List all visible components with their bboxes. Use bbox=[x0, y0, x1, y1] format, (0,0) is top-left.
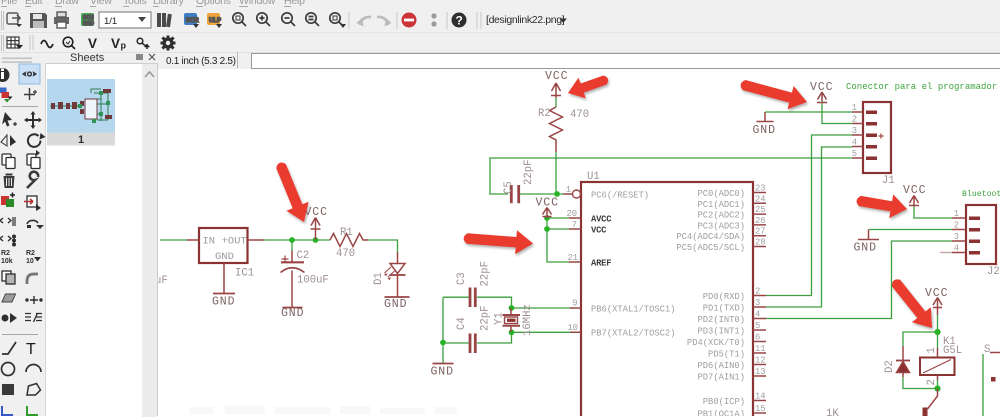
tool: change (wrench) bbox=[27, 172, 38, 188]
svg-text:10: 10 bbox=[26, 258, 34, 265]
tool: lock bbox=[27, 220, 44, 229]
wire VCC to K1 bbox=[937, 315, 939, 348]
dots icon bbox=[431, 13, 436, 18]
svg-text:PD4(XCK/T0): PD4(XCK/T0) bbox=[687, 338, 745, 348]
node K1 top junction bbox=[934, 329, 940, 335]
sheet thumbnail bbox=[47, 79, 116, 146]
tool: show (selected) bbox=[19, 64, 40, 84]
svg-text:V: V bbox=[88, 36, 97, 51]
svg-text:1/1: 1/1 bbox=[104, 16, 117, 27]
svg-text:2: 2 bbox=[954, 221, 959, 231]
svg-text:470: 470 bbox=[570, 109, 589, 121]
svg-text:3: 3 bbox=[755, 298, 760, 308]
svg-text:BRD: BRD bbox=[83, 21, 94, 27]
svg-text:C5: C5 bbox=[503, 181, 515, 194]
svg-text:GND: GND bbox=[384, 298, 407, 311]
svg-text:2: 2 bbox=[852, 115, 857, 125]
wire J1.4 to TXD bbox=[766, 147, 852, 307]
capacitor C2 bbox=[281, 251, 305, 308]
svg-text:PB7(XTAL2/TOSC2): PB7(XTAL2/TOSC2) bbox=[591, 329, 675, 339]
svg-text:ULP: ULP bbox=[209, 18, 221, 24]
svg-text:U1: U1 bbox=[587, 171, 600, 183]
svg-text:GND: GND bbox=[281, 307, 304, 320]
svg-text:20: 20 bbox=[566, 209, 577, 219]
node icon bbox=[137, 38, 149, 49]
IC1 pins bbox=[187, 240, 265, 293]
capacitor C5 bbox=[511, 185, 518, 203]
print icon bbox=[54, 12, 69, 28]
svg-text:PD0(RXD): PD0(RXD) bbox=[703, 292, 745, 302]
tool: pinswap bbox=[24, 196, 41, 211]
node XTAL2 junction bbox=[509, 329, 515, 335]
library books icon bbox=[157, 13, 172, 27]
U1 left pins bbox=[569, 218, 581, 332]
tool: wire bbox=[2, 342, 16, 354]
tool: ripup (parallelogram) bbox=[2, 294, 16, 302]
svg-text:PC0(ADC0): PC0(ADC0) bbox=[697, 189, 745, 199]
svg-text:C2: C2 bbox=[297, 250, 310, 262]
svg-text:PD5(T1): PD5(T1) bbox=[708, 350, 745, 360]
wire R2 bottom to junction bbox=[555, 152, 557, 194]
crystal Y1 bbox=[503, 308, 521, 332]
svg-text:PB0(ICP): PB0(ICP) bbox=[703, 397, 745, 407]
row2: grid icon bbox=[7, 37, 23, 49]
svg-text:IC1: IC1 bbox=[235, 268, 254, 280]
svg-text:16MHz: 16MHz bbox=[522, 304, 534, 336]
tool: paste bbox=[27, 150, 40, 169]
diode D1 LED bbox=[384, 252, 406, 297]
node K1 bottom junction bbox=[934, 385, 940, 391]
node RESET junction bbox=[554, 191, 560, 197]
tool: mirror bbox=[1, 135, 16, 146]
tool: move bbox=[24, 111, 42, 129]
svg-text:Bluetooth: Bluetooth bbox=[962, 189, 1000, 199]
wire input to IC1 bbox=[160, 239, 188, 241]
capacitor C3 bbox=[470, 288, 475, 308]
svg-text:D2: D2 bbox=[884, 360, 896, 373]
tool: select arrow bbox=[2, 112, 17, 127]
left command toolbar bbox=[0, 69, 46, 416]
gear icon bbox=[161, 36, 176, 51]
zoom icons x5 bbox=[233, 13, 346, 28]
wire D2 loop bottom bbox=[903, 377, 938, 389]
svg-text:26: 26 bbox=[755, 216, 766, 226]
transistor Q1 lead bbox=[928, 389, 938, 410]
svg-text:PC6(/RESET): PC6(/RESET) bbox=[591, 191, 649, 201]
svg-text:1: 1 bbox=[954, 209, 959, 219]
svg-text:470: 470 bbox=[336, 248, 355, 260]
svg-text:12: 12 bbox=[755, 356, 766, 366]
wire C2 top bbox=[291, 240, 293, 251]
diode D2 bbox=[896, 346, 910, 377]
help icon bbox=[452, 13, 467, 28]
svg-text:GND: GND bbox=[431, 366, 454, 379]
stop icon bbox=[402, 13, 417, 28]
tool: bus bbox=[2, 406, 13, 415]
svg-text:10k: 10k bbox=[1, 258, 13, 265]
svg-text:2: 2 bbox=[926, 379, 938, 385]
wire D2 loop top bbox=[903, 332, 938, 346]
tool: copy bbox=[2, 154, 15, 169]
tool: info bbox=[0, 68, 10, 82]
svg-text:1: 1 bbox=[78, 134, 84, 146]
wire J1.1 to GND bbox=[765, 111, 852, 113]
svg-text:10: 10 bbox=[567, 323, 578, 333]
svg-text:22pF: 22pF bbox=[480, 306, 492, 331]
wire net J1.5 / C5 / RESET bbox=[490, 158, 852, 194]
svg-text:13: 13 bbox=[755, 367, 766, 377]
svg-text:GND: GND bbox=[753, 124, 776, 137]
canvas coordinate header bbox=[166, 56, 236, 67]
wire C3/C4 left rail to GND bbox=[443, 297, 469, 363]
tool: add bbox=[1, 193, 15, 208]
svg-text:VCC: VCC bbox=[536, 197, 559, 210]
wire AVCC spur bbox=[547, 217, 569, 219]
top chrome background bbox=[0, 0, 1000, 69]
svg-text:?: ? bbox=[456, 14, 463, 28]
wire XTAL1 net bbox=[477, 297, 570, 308]
svg-text:25: 25 bbox=[755, 205, 766, 215]
tool: smash bbox=[2, 271, 15, 284]
net class squiggle bbox=[41, 41, 53, 48]
node C4 left junction bbox=[440, 340, 446, 346]
SCH/BRD icon bbox=[81, 13, 94, 27]
svg-text:Conector para el programador: Conector para el programador bbox=[846, 82, 997, 92]
redo arrow (disabled) bbox=[377, 17, 388, 25]
tool: gateswap bbox=[0, 217, 15, 226]
IC U1 box bbox=[581, 182, 753, 417]
svg-text:p: p bbox=[121, 41, 127, 51]
tool: split bbox=[26, 296, 42, 304]
relay K1 coil bbox=[920, 348, 955, 380]
svg-text:GND: GND bbox=[212, 296, 235, 309]
wire switch S right edge bbox=[982, 354, 984, 416]
svg-text:C4: C4 bbox=[456, 317, 468, 330]
wire J2.2 to GND bbox=[869, 229, 953, 231]
tool: net bbox=[27, 406, 38, 415]
svg-text:+OUT: +OUT bbox=[222, 236, 247, 248]
svg-text:7: 7 bbox=[572, 220, 577, 230]
svg-text:6: 6 bbox=[755, 333, 760, 343]
svg-text:PC3(ADC3): PC3(ADC3) bbox=[697, 221, 745, 231]
svg-text:PD7(AIN1): PD7(AIN1) bbox=[697, 373, 745, 383]
svg-text:S: S bbox=[984, 344, 990, 356]
arrow A2 bbox=[741, 80, 807, 109]
tool: polygon bbox=[27, 384, 41, 396]
svg-text:R2: R2 bbox=[1, 250, 10, 257]
svg-text:R1: R1 bbox=[340, 227, 353, 239]
svg-text:V: V bbox=[111, 36, 120, 51]
node VCC pin junction bbox=[544, 226, 550, 232]
svg-text:G5L: G5L bbox=[943, 345, 962, 357]
tool: arc bbox=[26, 365, 41, 372]
U1 pin 1 RESET w/ circle bbox=[563, 193, 572, 195]
SCR icon bbox=[184, 13, 199, 28]
wire R1 to D1 bbox=[368, 240, 398, 252]
open/export icon bbox=[7, 13, 22, 27]
wire VCC to J1.2 bbox=[822, 101, 852, 124]
svg-text:Y1: Y1 bbox=[494, 312, 506, 325]
toolbar row 1 icons bbox=[0, 0, 1000, 69]
tool: invoke bbox=[2, 313, 18, 323]
capacitor C4 bbox=[470, 334, 475, 354]
magnifier small bbox=[63, 37, 75, 49]
svg-text:1K: 1K bbox=[826, 408, 839, 416]
supply VCC4 (J1) bbox=[817, 92, 827, 103]
svg-text:VCC: VCC bbox=[591, 226, 607, 236]
wire XTAL2 net bbox=[477, 332, 570, 343]
svg-text:3: 3 bbox=[852, 126, 857, 136]
ULP icon bbox=[207, 13, 222, 28]
wire VCC to J2.1 bbox=[914, 206, 952, 218]
tool: mark bbox=[24, 88, 37, 100]
svg-text:23: 23 bbox=[755, 184, 766, 194]
svg-text:VCC: VCC bbox=[925, 287, 948, 300]
svg-text:PD2(INT0): PD2(INT0) bbox=[697, 315, 745, 325]
wire VCC to R2 top bbox=[555, 98, 557, 107]
svg-text:uF: uF bbox=[158, 275, 168, 287]
tool: value bbox=[26, 250, 41, 265]
wire J2.3 to INT0 bbox=[766, 241, 952, 319]
svg-text:VCC: VCC bbox=[305, 206, 328, 219]
ground IC1 bbox=[213, 293, 235, 295]
resistor R1 bbox=[330, 234, 368, 247]
svg-text:PD6(AIN0): PD6(AIN0) bbox=[697, 361, 745, 371]
wire IC1 out to R1 bbox=[265, 239, 331, 241]
svg-text:PC4(ADC4/SDA): PC4(ADC4/SDA) bbox=[676, 232, 745, 242]
svg-text:[designlink22.png]: [designlink22.png] bbox=[486, 14, 565, 26]
wire VCC rail AVCC/VCC/AREF bbox=[547, 218, 569, 262]
supply VCC2 (R2 top) bbox=[551, 83, 561, 98]
wire C5 right to pin1 bbox=[520, 193, 563, 195]
arrow A3 bbox=[857, 195, 907, 219]
ground J2 bbox=[858, 230, 879, 240]
supply VCC5 (J2) bbox=[909, 196, 919, 207]
svg-text:PD3(INT1): PD3(INT1) bbox=[697, 327, 745, 337]
sheets panel bbox=[46, 63, 142, 417]
ground C2 bbox=[283, 307, 303, 309]
svg-text:J2: J2 bbox=[987, 266, 1000, 278]
svg-text:R2: R2 bbox=[538, 108, 551, 120]
svg-text:1: 1 bbox=[926, 347, 938, 353]
connector J2 bbox=[940, 205, 996, 264]
tool: delete bbox=[4, 174, 15, 189]
svg-text:1: 1 bbox=[852, 103, 857, 113]
undo arrow (disabled) bbox=[360, 17, 371, 25]
wire VCC spur bbox=[547, 228, 569, 230]
svg-text:PC1(ADC1): PC1(ADC1) bbox=[697, 200, 745, 210]
svg-text:PD1(TXD): PD1(TXD) bbox=[703, 304, 745, 314]
node C2 junction bbox=[289, 237, 295, 243]
svg-text:PB1(OC1A): PB1(OC1A) bbox=[697, 410, 745, 417]
ground J1 bbox=[757, 112, 774, 122]
svg-text:22pF: 22pF bbox=[480, 261, 492, 286]
arrow A5 bbox=[464, 230, 533, 254]
arrow A4 bbox=[568, 76, 608, 99]
svg-text:4: 4 bbox=[852, 138, 857, 148]
IC1 regulator box bbox=[199, 228, 248, 263]
svg-text:4: 4 bbox=[755, 310, 760, 320]
faint clipped marks bottom bbox=[190, 405, 457, 414]
switch S partial bbox=[990, 352, 1000, 354]
svg-text:C3: C3 bbox=[456, 272, 468, 285]
svg-text:2: 2 bbox=[755, 287, 760, 297]
svg-text:GND: GND bbox=[215, 251, 234, 263]
connector J1 bbox=[852, 102, 891, 173]
tool: rect bbox=[2, 384, 14, 395]
svg-text:AREF: AREF bbox=[591, 259, 611, 269]
node VCC junction bbox=[313, 237, 319, 243]
svg-text:T: T bbox=[26, 341, 36, 358]
svg-text:SCR: SCR bbox=[186, 18, 199, 24]
svg-text:28: 28 bbox=[755, 238, 766, 248]
tool: miter bbox=[27, 274, 38, 284]
supply VCC3 (AVCC rail) bbox=[543, 208, 552, 219]
svg-text:9: 9 bbox=[572, 299, 577, 309]
svg-text:VCC: VCC bbox=[810, 81, 833, 94]
svg-text:VCC: VCC bbox=[545, 70, 568, 83]
svg-text:21: 21 bbox=[567, 253, 578, 263]
svg-text:R2: R2 bbox=[26, 250, 35, 257]
tool: name bbox=[1, 250, 13, 265]
node XTAL1 junction bbox=[509, 305, 515, 311]
svg-text:PB6(XTAL1/TOSC1): PB6(XTAL1/TOSC1) bbox=[591, 305, 675, 315]
svg-text:22pF: 22pF bbox=[523, 160, 535, 185]
svg-text:D1: D1 bbox=[373, 272, 385, 285]
tool: swaplevel bbox=[0, 235, 15, 246]
supply VCC1 bbox=[311, 218, 321, 241]
svg-text:5: 5 bbox=[755, 321, 760, 331]
arrow A1 bbox=[276, 163, 308, 222]
tool: rotate bbox=[28, 134, 41, 147]
ground D1 bbox=[385, 296, 410, 298]
svg-text:27: 27 bbox=[755, 227, 766, 237]
supply VCC6 (K1) bbox=[933, 298, 942, 316]
svg-text:GND: GND bbox=[854, 242, 877, 255]
tool: erc bbox=[25, 313, 42, 322]
svg-text:24: 24 bbox=[755, 194, 766, 204]
svg-text:PC2(ADC2): PC2(ADC2) bbox=[697, 211, 745, 221]
sheet combo 1/1 bbox=[99, 12, 151, 28]
svg-text:14: 14 bbox=[755, 392, 766, 402]
save icon bbox=[30, 13, 47, 28]
svg-text:J1: J1 bbox=[882, 175, 895, 187]
svg-text:VCC: VCC bbox=[903, 184, 926, 197]
svg-text:PC5(ADC5/SCL): PC5(ADC5/SCL) bbox=[676, 243, 745, 253]
svg-text:AVCC: AVCC bbox=[591, 215, 612, 225]
svg-text:4: 4 bbox=[954, 244, 959, 254]
tool: display layers bbox=[0, 88, 13, 103]
arrow A6 bbox=[892, 279, 932, 328]
wire J1.3 to RXD bbox=[766, 135, 852, 296]
svg-text:100uF: 100uF bbox=[297, 275, 329, 287]
node AVCC junction bbox=[544, 215, 550, 221]
tool: circle bbox=[2, 363, 15, 376]
resistor R2 bbox=[550, 107, 563, 152]
svg-text:IN: IN bbox=[203, 236, 216, 248]
ground C3C4 bbox=[433, 363, 454, 365]
schematic canvas bbox=[158, 69, 1000, 416]
U1 right pins bbox=[753, 193, 766, 414]
svg-text:3: 3 bbox=[954, 232, 959, 242]
svg-text:15: 15 bbox=[755, 404, 766, 414]
svg-text:1: 1 bbox=[566, 185, 571, 195]
dark power pin names bbox=[591, 215, 612, 269]
svg-text:5: 5 bbox=[852, 149, 857, 159]
menu bar (clipped at top) bbox=[1, 0, 17, 7]
wire K1.2 to junction bbox=[937, 380, 939, 389]
svg-text:11: 11 bbox=[755, 344, 766, 354]
